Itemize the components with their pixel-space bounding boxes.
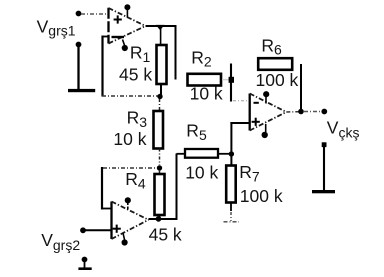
op-amp U3 bbox=[250, 91, 287, 138]
wire U3 output bbox=[286, 111, 299, 113]
lead R1 top bbox=[160, 27, 162, 46]
wire output corner down to R2 bbox=[175, 25, 177, 80]
svg-text:45 k: 45 k bbox=[149, 225, 182, 245]
svg-text:10 k: 10 k bbox=[190, 83, 223, 103]
terminal Vgrş1 top bbox=[76, 11, 82, 17]
U1 V+ terminal bbox=[126, 8, 128, 18]
lead R3 bottom (dashed) bbox=[159, 149, 161, 166]
ground G3 bbox=[312, 190, 335, 193]
terminal Vçkş bbox=[321, 109, 327, 115]
resistor R7 bbox=[226, 166, 236, 203]
wire U1 feedback: minus stub bbox=[103, 36, 110, 38]
svg-text:100 k: 100 k bbox=[256, 70, 299, 90]
svg-text:10 k: 10 k bbox=[113, 129, 146, 149]
U3 plus input symbol bbox=[252, 121, 260, 123]
wire Vgrş1 bottom to ground bbox=[77, 46, 79, 90]
resistor R1 bbox=[157, 45, 167, 84]
terminal Vgrş2 bottom bbox=[82, 257, 88, 263]
lead R4 top (dashed) bbox=[159, 170, 161, 174]
U1 minus input symbol bbox=[112, 36, 125, 38]
lead R4 bottom bbox=[159, 215, 161, 219]
wire U1 output bbox=[146, 25, 176, 27]
node G bbox=[298, 109, 304, 115]
svg-text:10 k: 10 k bbox=[185, 162, 218, 182]
wire Vgrş1 to U1 + input bbox=[81, 13, 108, 15]
U3 V+ terminal bbox=[265, 95, 267, 104]
U2 V- terminal bbox=[123, 233, 125, 240]
lead R2 right (faint) bbox=[222, 79, 229, 81]
lead R7 bottom bbox=[230, 203, 232, 212]
U3 minus input symbol bbox=[254, 102, 259, 104]
node A (U1 out) bbox=[156, 25, 165, 30]
U2 V+ terminal bbox=[127, 202, 129, 211]
lead R5 left bbox=[177, 153, 186, 155]
resistor R2 bbox=[188, 74, 222, 86]
lead R3 top (dashed) bbox=[159, 99, 161, 111]
U1 plus input symbol bbox=[114, 19, 122, 21]
wire U1 feedback: left vertical bbox=[101, 36, 103, 97]
wire U2 feedback: horizontal from node C bbox=[103, 167, 157, 169]
wire U2 feedback: stub to minus input bbox=[102, 208, 112, 210]
terminal Vgrş2 top bbox=[80, 227, 86, 233]
wire R6 right down to output bbox=[300, 64, 302, 110]
U2 plus input symbol bbox=[113, 228, 121, 230]
U3 V- terminal bbox=[265, 124, 267, 132]
wire Vgrş2 to U2 + input bbox=[85, 229, 112, 231]
node D bbox=[156, 216, 162, 222]
wire bus to U3 + input bbox=[230, 122, 232, 166]
wire output lower to ground bbox=[323, 147, 325, 191]
node E bbox=[229, 77, 234, 83]
resistor R4 bbox=[155, 174, 165, 215]
terminal Vgrş1 bottom bbox=[76, 42, 82, 48]
op-amp U1 bbox=[109, 4, 146, 51]
wire to U3 minus input (faint dash) bbox=[233, 100, 249, 102]
termination below R7 (dash-dot) bbox=[230, 212, 232, 221]
wire R6 left stub bbox=[230, 64, 232, 102]
node B bbox=[157, 94, 162, 99]
wire up to R5 bbox=[176, 154, 178, 221]
wire node G to output terminal (dash) bbox=[304, 111, 321, 113]
U1 V- terminal bbox=[123, 40, 125, 46]
wire U2 output bbox=[149, 218, 177, 220]
lead R1 bottom bbox=[160, 84, 162, 96]
wire U1 feedback: horizontal to node B bbox=[102, 95, 158, 97]
node C bbox=[157, 165, 162, 170]
lead R5 right bbox=[218, 153, 230, 155]
ground G2 bbox=[78, 267, 91, 270]
resistor R3 bbox=[154, 111, 164, 149]
svg-text:100 k: 100 k bbox=[240, 186, 283, 206]
resistor R6 bbox=[258, 58, 292, 70]
ground G1 bbox=[68, 89, 95, 92]
wire U2 feedback: left vertical bbox=[101, 167, 103, 210]
resistor R5 bbox=[185, 149, 218, 158]
node F bbox=[229, 151, 234, 156]
terminal output lower bbox=[322, 142, 327, 147]
op-amp U2 bbox=[112, 197, 149, 245]
svg-text:45 k: 45 k bbox=[119, 65, 152, 85]
wire Vgrş2 to ground bbox=[84, 261, 86, 268]
